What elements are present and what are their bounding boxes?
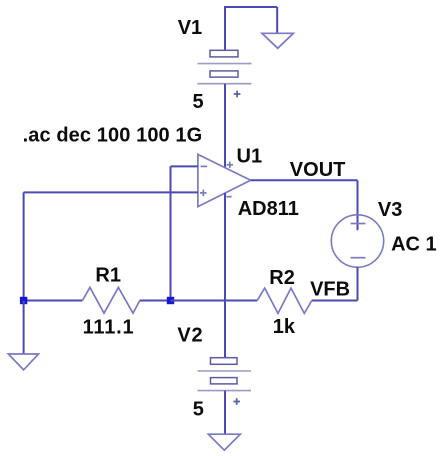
resistor R2 zigzag: [257, 288, 312, 313]
wire left vertical to ground node: [23, 192, 25, 300]
ground (bottom): [208, 434, 240, 450]
svg-text:5: 5: [193, 398, 204, 420]
svg-text:111.1: 111.1: [83, 317, 135, 339]
ground (left): [8, 354, 38, 370]
wire inverting input stub: [171, 165, 198, 167]
V3 minus mark: [351, 257, 366, 259]
svg-text:V2: V2: [177, 324, 203, 346]
svg-text:1k: 1k: [273, 316, 296, 338]
svg-text:5: 5: [193, 91, 204, 113]
svg-text:VOUT: VOUT: [290, 159, 346, 181]
wire top ground drop (vertical): [276, 7, 278, 33]
junction node (left, ground): [20, 297, 27, 304]
svg-text:AC 1: AC 1: [391, 234, 437, 256]
wire V1 to op-amp positive supply pin: [224, 84, 226, 168]
voltage source V1 (battery): [198, 50, 252, 97]
svg-text:V3: V3: [378, 199, 402, 221]
svg-text:U1: U1: [237, 146, 263, 168]
wire non-inverting input horizontal: [24, 191, 198, 193]
wire ground node to R1 left lead: [24, 300, 83, 302]
op-amp U1 triangle: [198, 154, 251, 206]
wire R2 right lead to V3 bottom corner: [312, 300, 358, 302]
svg-text:VFB: VFB: [310, 279, 350, 301]
wire op-amp negative supply down to V2: [224, 193, 226, 358]
wire top from V1 plus terminal to ground (horizontal): [224, 6, 277, 8]
V3 plus mark: [351, 223, 366, 225]
wire output from op-amp to VOUT corner: [251, 179, 358, 181]
voltage source V2 (battery): [198, 358, 252, 405]
op-amp inverting input mark -: [201, 165, 208, 167]
wire feedback node to R2 left lead: [171, 300, 258, 302]
wire V1 top lead: [224, 6, 226, 51]
svg-text:V1: V1: [178, 17, 202, 39]
wire R1 right lead to feedback node: [140, 300, 171, 302]
resistor R1 zigzag: [83, 287, 140, 313]
svg-text:AD811: AD811: [238, 198, 299, 220]
junction node (feedback, R1-R2): [167, 297, 174, 304]
op-amp non-inverting input mark +: [200, 190, 207, 197]
svg-text:R1: R1: [95, 265, 121, 287]
voltage source V3 (AC) circle: [331, 215, 383, 267]
wire feedback vertical (inverting input down to R1/R2 node): [170, 166, 172, 300]
wire V3 bottom down to VFB row: [357, 267, 359, 300]
wire left node down to ground: [23, 301, 25, 355]
ground (top right): [262, 33, 293, 48]
svg-text:.ac dec 100 100 1G: .ac dec 100 100 1G: [23, 124, 203, 146]
op-amp negative supply mark -: [226, 196, 231, 198]
op-amp positive supply mark +: [227, 162, 233, 168]
wire V2 bottom to ground: [224, 391, 226, 435]
svg-text:R2: R2: [269, 267, 295, 289]
wire VOUT corner down into V3 plus: [357, 180, 359, 230]
